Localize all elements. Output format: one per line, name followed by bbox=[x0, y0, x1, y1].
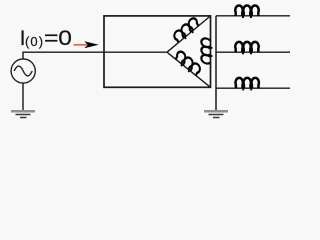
delta winding L2 (bottom diagonal) bbox=[167, 50, 211, 88]
phase line A (top) bbox=[216, 5, 290, 18]
svg-text:=: = bbox=[44, 26, 59, 50]
current arrow I(0) bbox=[74, 41, 99, 48]
svg-text:0: 0 bbox=[58, 26, 72, 50]
transformer box bbox=[104, 16, 211, 87]
bus (secondary neutral) bbox=[215, 16, 217, 111]
ground (right) bbox=[204, 111, 228, 117]
delta winding L3 (right vertical, on box right edge) bbox=[201, 38, 212, 65]
label I(0)=0 bbox=[20, 26, 72, 50]
svg-text:(0): (0) bbox=[25, 34, 44, 49]
ground (left) bbox=[11, 111, 35, 117]
phase line C (bottom) bbox=[216, 78, 290, 91]
AC source V1 bbox=[11, 59, 35, 83]
wire source bottom to ground bbox=[22, 83, 24, 111]
wire source top to delta apex bbox=[23, 52, 167, 59]
delta winding L1 (top diagonal) bbox=[167, 16, 211, 52]
phase line B (middle) bbox=[216, 42, 290, 55]
